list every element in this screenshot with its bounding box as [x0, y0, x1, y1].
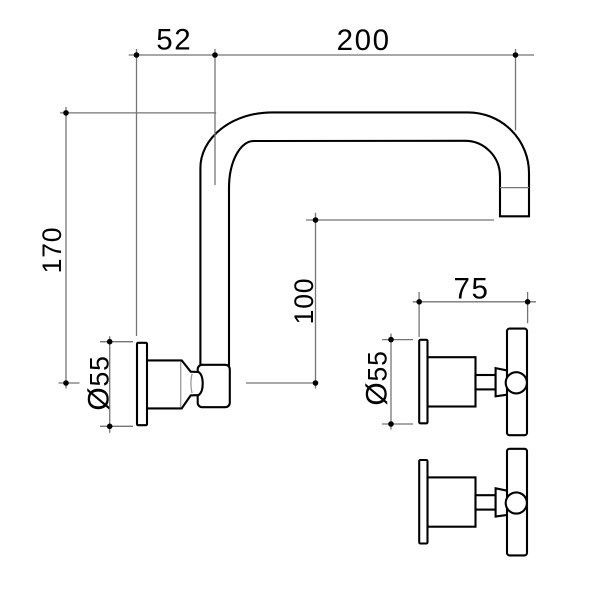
- svg-text:100: 100: [289, 278, 319, 325]
- svg-text:170: 170: [37, 227, 67, 274]
- svg-text:75: 75: [453, 272, 489, 305]
- svg-text:Ø55: Ø55: [83, 355, 116, 410]
- svg-text:200: 200: [337, 24, 391, 57]
- svg-text:52: 52: [156, 23, 192, 56]
- svg-text:Ø55: Ø55: [361, 350, 394, 405]
